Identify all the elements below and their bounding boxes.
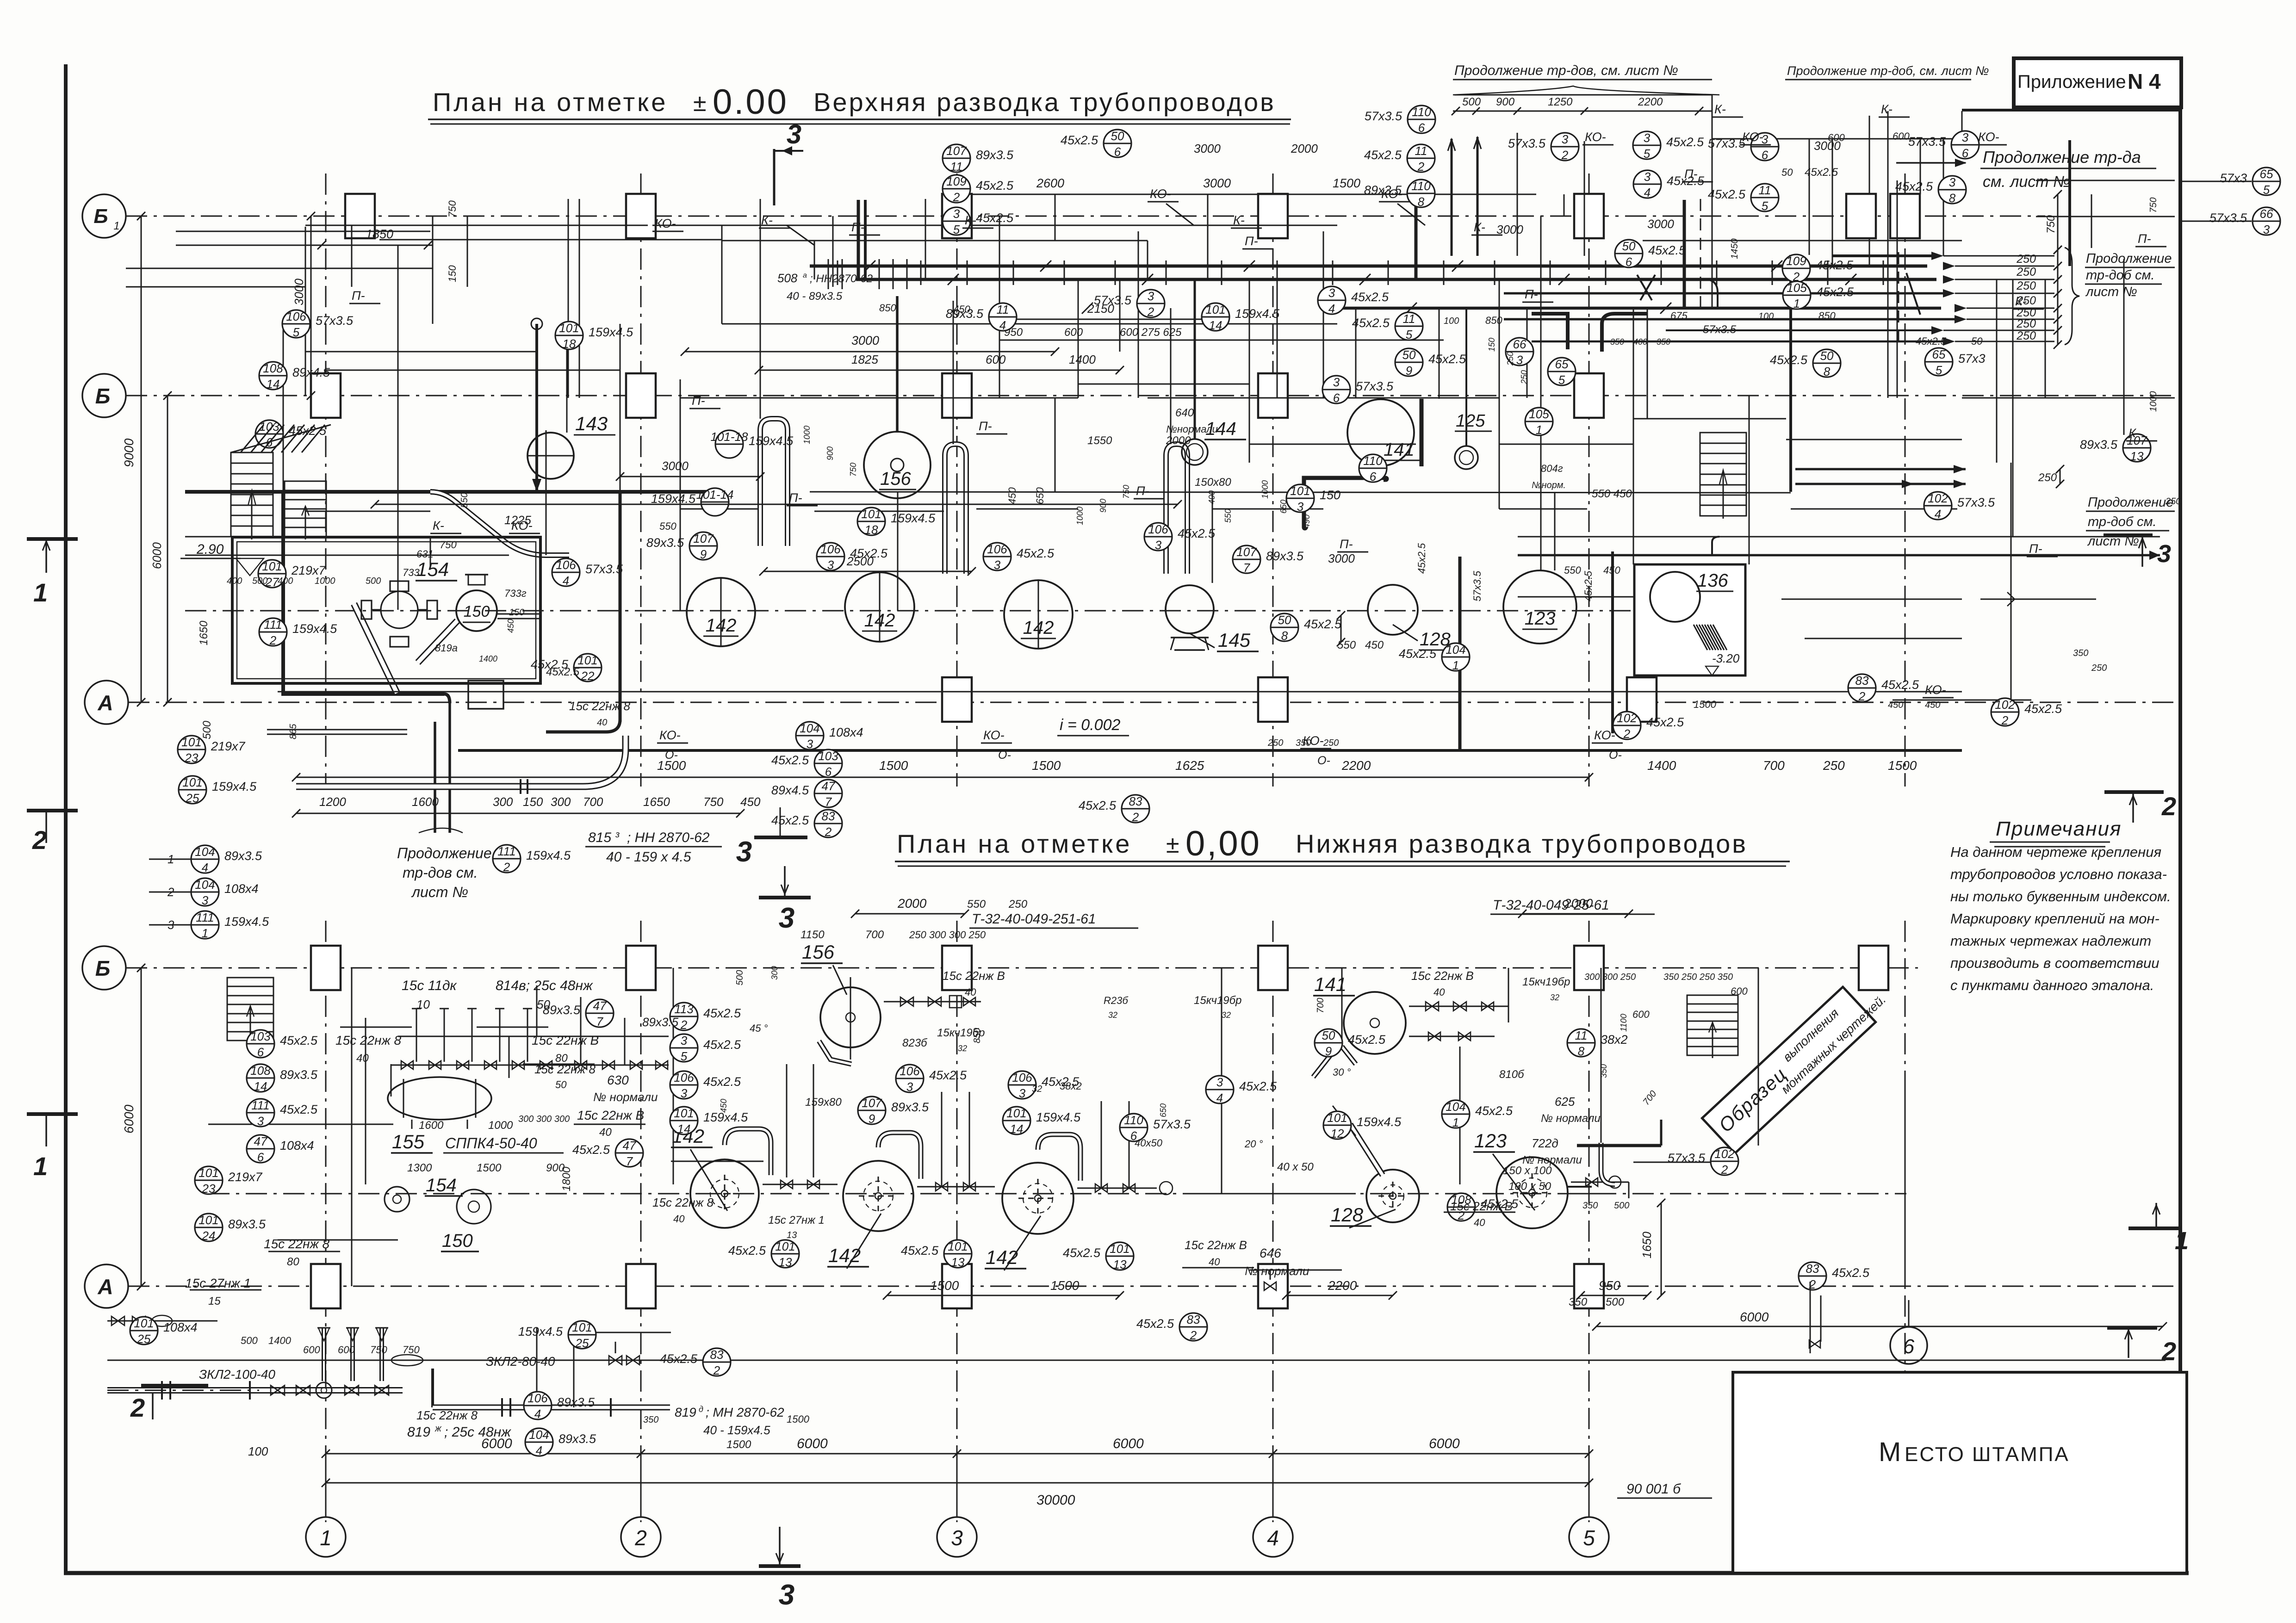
bundle zigzag 2 (1690, 279, 1718, 308)
right verticals a (1887, 111, 1889, 398)
svg-text:6: 6 (825, 765, 832, 779)
141 heavy header (1305, 479, 1386, 527)
svg-text:300: 300 (770, 966, 779, 980)
svg-text:КО-: КО- (1585, 130, 1606, 144)
pipe line left y760 (305, 351, 537, 353)
svg-text:123: 123 (1525, 608, 1556, 629)
svg-text:КО-: КО- (655, 217, 676, 230)
svg-text:14: 14 (254, 1079, 267, 1093)
svg-text:57х3: 57х3 (2220, 171, 2247, 185)
svg-text:4: 4 (1644, 186, 1651, 199)
texture pipe v20 (1055, 398, 1056, 492)
svg-text:700: 700 (865, 929, 884, 941)
svg-text:45х2.5: 45х2.5 (703, 1075, 741, 1089)
callout 104/4 lower (525, 1428, 553, 1456)
callout 3/8 upper (1938, 176, 1966, 204)
svg-text:±: ± (693, 90, 707, 117)
svg-text:350: 350 (1599, 1064, 1608, 1078)
pipe line u11 (1078, 384, 1249, 385)
pipe riser x3060 (1415, 200, 1418, 279)
callout 47/7 upper (814, 780, 842, 807)
slash mark 8 (1660, 303, 1671, 314)
svg-text:159х4.5: 159х4.5 (518, 1325, 563, 1338)
svg-text:110: 110 (1412, 105, 1431, 119)
riser line 17 (1207, 216, 1209, 279)
svg-text:i = 0.002: i = 0.002 (1060, 716, 1120, 734)
svg-text:90 001 б: 90 001 б (1626, 1481, 1681, 1497)
pipe line u16 (1212, 508, 1323, 510)
svg-text:159х4.5: 159х4.5 (292, 622, 337, 636)
156 heavy riser (896, 296, 899, 433)
riser line 23 (1633, 308, 1634, 564)
svg-text:650: 650 (1159, 1103, 1168, 1117)
right pipe y1200 (1518, 554, 2160, 557)
svg-text:32: 32 (1108, 1010, 1117, 1020)
svg-text:1500: 1500 (1333, 176, 1360, 190)
equipment centerline lower (208, 1193, 1906, 1195)
svg-text:см. лист №: см. лист № (1983, 173, 2070, 191)
lower riser 19 (1758, 968, 1759, 1146)
texture pipe h10 (1962, 397, 2175, 399)
svg-text:500: 500 (252, 576, 267, 586)
texture pipe v23 (1554, 492, 1556, 570)
gate tick 4 (1013, 260, 1014, 285)
heavy vert x3485 (1611, 551, 1614, 733)
callout 110/6 upper (1408, 105, 1435, 133)
callout 107/13 upper (2123, 434, 2151, 462)
svg-text:250: 250 (1823, 758, 1845, 773)
room wall upper (232, 537, 540, 683)
riser line 3 (432, 216, 434, 324)
svg-text:350: 350 (643, 1415, 658, 1425)
texture pipe v7 (1809, 139, 1810, 255)
svg-text:Продолжение тр-доб, см. лис: Продолжение тр-доб, см. лист № (1787, 64, 1989, 78)
svg-text:К-: К- (965, 213, 976, 227)
svg-text:125: 125 (1456, 411, 1485, 431)
pipe line u22 (1518, 596, 1633, 598)
svg-text:9: 9 (1406, 364, 1412, 378)
svg-text:4: 4 (534, 1407, 541, 1421)
svg-text:57х3: 57х3 (1958, 352, 1986, 365)
sheet right border (2178, 107, 2182, 1573)
svg-text:Маркировку креплений на мон: Маркировку креплений на мон- (1950, 911, 2159, 927)
svg-text:108х4: 108х4 (163, 1320, 198, 1334)
riser line 15 (1138, 231, 1139, 398)
texture pipe h3 (722, 240, 1148, 242)
svg-text:1650: 1650 (643, 795, 670, 809)
svg-text:57х3.5: 57х3.5 (1708, 136, 1746, 150)
svg-text:13: 13 (787, 1230, 797, 1240)
svg-text:45х2.5: 45х2.5 (929, 1068, 967, 1082)
svg-text:106: 106 (527, 1391, 548, 1405)
texture pipe h12 (176, 245, 324, 246)
callout 47/7 lower (615, 1139, 643, 1167)
svg-text:900: 900 (1496, 96, 1515, 108)
svg-text:3000: 3000 (1328, 551, 1355, 565)
column line 2 lower (640, 921, 642, 1522)
pipe hook 156 (819, 1041, 851, 1064)
bundle dim line (2057, 250, 2059, 345)
pipe line u1 (652, 225, 1337, 226)
pipe line u3 (324, 245, 433, 246)
callout 11/5 upper (1751, 184, 1779, 211)
svg-text:142: 142 (1023, 618, 1054, 638)
callout 65/5 upper (1925, 348, 1953, 376)
svg-text:5: 5 (953, 223, 960, 236)
svg-text:50: 50 (1971, 335, 1983, 347)
callout 103/6 lower (247, 1030, 274, 1058)
svg-text:640: 640 (1175, 407, 1194, 419)
svg-text:6: 6 (1626, 255, 1632, 269)
gate tick 3 (967, 260, 968, 285)
pipe 144 drop (1194, 279, 1196, 439)
svg-text:650: 650 (1034, 487, 1046, 504)
pipe line u18 (1791, 508, 1957, 510)
svg-text:О-: О- (1317, 754, 1330, 767)
callout 110/8 upper (1407, 180, 1435, 207)
pipe 150 right (497, 613, 540, 619)
callout 104/1 upper (1442, 643, 1470, 671)
label underline (1182, 1267, 1254, 1269)
svg-text:675: 675 (1670, 310, 1688, 322)
svg-text:550: 550 (1564, 564, 1581, 576)
svg-text:0.00: 0.00 (713, 82, 788, 122)
heavy vert x3193 (1477, 137, 1479, 256)
svg-text:450: 450 (1006, 487, 1018, 504)
equipment 128 upper (1368, 585, 1418, 635)
svg-text:45х2.5: 45х2.5 (1017, 546, 1055, 560)
svg-text:КО-: КО- (1978, 130, 1999, 144)
svg-text:101: 101 (674, 1106, 694, 1120)
section flag 3 mid-upper (780, 807, 781, 837)
heavy vert x1340 (619, 492, 622, 722)
gate tick 20 (1883, 260, 1884, 285)
svg-text:М: М (1879, 1437, 1902, 1467)
lower riser 14 (1221, 968, 1222, 1194)
callout 83/2 upper (814, 810, 842, 837)
svg-text:100: 100 (1444, 316, 1459, 326)
svg-text:89х3.5: 89х3.5 (891, 1100, 929, 1114)
svg-text:План на отметке: План на отметке (433, 87, 668, 117)
svg-text:45х2.5: 45х2.5 (660, 1352, 698, 1366)
svg-text:32: 32 (958, 1044, 967, 1053)
svg-text:2: 2 (825, 825, 832, 839)
svg-text:а: а (803, 272, 807, 279)
svg-text:40 - 159х4.5: 40 - 159х4.5 (703, 1423, 770, 1437)
svg-text:350: 350 (1582, 1201, 1598, 1211)
callout 101/14 upper (1202, 303, 1229, 331)
lower title underline (895, 861, 1790, 862)
svg-text:3: 3 (1019, 1086, 1026, 1100)
thin line y518 (379, 239, 722, 241)
dim 2200 lower (1286, 1295, 1393, 1296)
svg-text:350: 350 (1657, 337, 1670, 347)
lower riser 21 (1820, 1295, 1822, 1342)
svg-text:О-: О- (998, 749, 1011, 762)
column rect А lower (1574, 1264, 1604, 1308)
platform rect (468, 681, 503, 709)
svg-text:550: 550 (1223, 509, 1233, 523)
svg-text:66: 66 (1513, 337, 1527, 351)
texture pipe h1 (999, 340, 1444, 341)
bottom dim chain 6000s (326, 1453, 1589, 1455)
svg-text:6000: 6000 (1429, 1436, 1460, 1451)
callout 106/3 upper (817, 543, 844, 570)
svg-text:100 х 50: 100 х 50 (1508, 1180, 1551, 1193)
riser line 29 (2012, 279, 2014, 537)
section mark 2 right lower (2107, 1326, 2157, 1330)
svg-text:300 300 250: 300 300 250 (1584, 972, 1636, 982)
callout 104/1 lower (1442, 1100, 1470, 1128)
svg-text:9: 9 (700, 547, 707, 561)
svg-text:108х4: 108х4 (829, 725, 863, 739)
svg-text:45х2.5: 45х2.5 (1136, 1317, 1174, 1331)
lower riser 1 (365, 1018, 366, 1184)
pipe 125 drop (1465, 308, 1467, 446)
callout 66/3 upper (2253, 207, 2280, 235)
svg-text:500: 500 (1462, 96, 1481, 108)
callout 101-14/ upper (701, 488, 729, 516)
svg-text:40: 40 (1433, 986, 1445, 998)
KO heavy bend right (1712, 537, 1719, 555)
column line 1 lower (325, 921, 327, 1522)
svg-text:45х2.5: 45х2.5 (1352, 316, 1390, 330)
svg-text:550: 550 (459, 493, 470, 508)
callout 106/3 upper (1144, 523, 1172, 551)
svg-text:П-: П- (851, 220, 865, 234)
diag pipe 154 b (418, 621, 457, 663)
callout 3/5 upper (943, 207, 970, 235)
dim 1825-600-1400 (759, 370, 1120, 371)
svg-text:750: 750 (403, 1344, 420, 1356)
label underline (340, 1027, 412, 1028)
callout 102/2 upper (1613, 712, 1641, 739)
texture pipe h5 (1712, 138, 1962, 140)
svg-text:; МН 2870-62: ; МН 2870-62 (706, 1405, 784, 1419)
svg-text:6000: 6000 (150, 542, 164, 569)
svg-text:110: 110 (1363, 454, 1383, 468)
svg-text:45х2.5: 45х2.5 (1646, 715, 1684, 729)
pipe riser x3870 (1789, 255, 1792, 492)
svg-text:45х2.5: 45х2.5 (1475, 1104, 1513, 1118)
pipe line u12 (185, 536, 527, 538)
svg-text:трубопроводов условно показа: трубопроводов условно показа- (1950, 866, 2167, 882)
svg-text:КО-: КО- (1150, 187, 1171, 201)
gate tick 9 (1277, 260, 1278, 285)
svg-text:500: 500 (1614, 1201, 1629, 1211)
texture pipe v22 (1212, 492, 1213, 583)
callout 102/4 upper (1924, 492, 1952, 520)
sheet left border (64, 64, 68, 1573)
equipment 142b upper (845, 572, 914, 642)
svg-text:57х3.5: 57х3.5 (2209, 211, 2247, 225)
svg-text:100: 100 (248, 1444, 268, 1458)
svg-text:15с 22нж 8: 15с 22нж 8 (652, 1196, 714, 1209)
callout 66/3 upper (1506, 338, 1533, 365)
svg-text:250: 250 (1267, 738, 1283, 748)
column rect Б1 (1890, 194, 1920, 238)
svg-text:30 °: 30 ° (1333, 1066, 1351, 1078)
svg-text:850: 850 (879, 302, 896, 314)
svg-text:На данном чертеже крепления: На данном чертеже крепления (1950, 844, 2161, 860)
svg-text:R23б: R23б (1104, 995, 1129, 1006)
heavy vert x3155 (1458, 557, 1462, 750)
callout 47/6 lower (247, 1135, 274, 1163)
callout 108/14 lower (247, 1064, 274, 1092)
svg-text:47: 47 (254, 1134, 268, 1148)
svg-text:101: 101 (181, 735, 201, 749)
svg-text:8: 8 (1824, 365, 1831, 378)
svg-text:тр-доб см.: тр-доб см. (2086, 268, 2155, 283)
svg-text:2: 2 (269, 633, 277, 647)
lower pipe 0 (107, 1360, 2166, 1361)
svg-text:5: 5 (2263, 183, 2270, 197)
svg-text:107: 107 (946, 144, 967, 158)
svg-text:550: 550 (967, 898, 986, 911)
svg-text:38х2: 38х2 (1601, 1033, 1628, 1047)
callout 105/1 upper (1783, 281, 1811, 309)
svg-text:2: 2 (1561, 148, 1569, 162)
stairs lower right (1687, 995, 1738, 1055)
pipe bundle right 3 (1504, 318, 1962, 321)
texture pipe h15 (305, 511, 430, 512)
axis Б1 line (126, 216, 2045, 217)
svg-text:142: 142 (706, 615, 737, 636)
svg-text:159х4.5: 159х4.5 (891, 511, 936, 525)
gate tick 11 (1388, 260, 1389, 285)
svg-text:32: 32 (1222, 1010, 1231, 1020)
svg-text:1550: 1550 (1087, 434, 1112, 447)
equipment 145 (1166, 585, 1214, 633)
svg-text:5: 5 (681, 1049, 688, 1063)
dim 2000 lower right (1522, 913, 1629, 915)
svg-text:100: 100 (1758, 311, 1774, 322)
riser line 14 (1078, 279, 1079, 398)
svg-text:106: 106 (556, 558, 576, 572)
manifold riser 4 (527, 1009, 528, 1062)
svg-text:850: 850 (1485, 315, 1502, 326)
svg-text:30000: 30000 (1036, 1493, 1075, 1508)
callout 101/24 lower (195, 1214, 223, 1241)
svg-text:65: 65 (2260, 167, 2273, 181)
callout 110/6 lower (1120, 1114, 1148, 1141)
svg-text:156: 156 (880, 469, 911, 489)
svg-text:733: 733 (403, 567, 420, 578)
svg-text:101-14: 101-14 (696, 488, 734, 502)
pipe line u15 (976, 508, 1078, 510)
svg-text:219х7: 219х7 (291, 564, 326, 577)
svg-text:89х3.5: 89х3.5 (557, 1395, 595, 1409)
callout 83/2 upper (1122, 795, 1149, 823)
svg-text:1625: 1625 (1175, 758, 1204, 773)
svg-text:6000: 6000 (1113, 1436, 1144, 1451)
svg-text:3: 3 (953, 207, 960, 221)
callout 101/25 lower (568, 1321, 596, 1349)
assembly riser 1 (350, 1328, 355, 1381)
svg-text:14: 14 (1010, 1122, 1024, 1136)
svg-text:3: 3 (681, 1034, 688, 1047)
svg-text:П-: П- (1245, 234, 1258, 248)
svg-text:128: 128 (1331, 1204, 1364, 1226)
lower pipe 3 (107, 1320, 217, 1322)
pipe bundle right 4 (1666, 329, 1939, 331)
svg-text:722д: 722д (1532, 1136, 1558, 1150)
svg-text:900: 900 (1098, 499, 1108, 513)
svg-text:1: 1 (202, 926, 208, 940)
svg-text:4: 4 (1267, 1526, 1279, 1550)
cont arrow line (1896, 162, 1966, 164)
svg-text:89х3.5: 89х3.5 (642, 1015, 679, 1029)
svg-text:; НН2870-62: ; НН2870-62 (810, 273, 873, 285)
svg-text:6: 6 (1370, 470, 1377, 483)
lower riser 6 (624, 1018, 626, 1065)
lower riser 12 (1101, 1101, 1102, 1188)
svg-text:750: 750 (2045, 215, 2057, 234)
svg-text:3: 3 (1516, 353, 1523, 367)
callout 3/2 upper (1551, 133, 1579, 161)
svg-text:40 - 89х3.5: 40 - 89х3.5 (787, 290, 843, 303)
KO long leaders (787, 225, 814, 245)
svg-text:823б: 823б (902, 1037, 928, 1049)
equipment 128 lower (1366, 1170, 1419, 1222)
svg-text:2: 2 (1858, 689, 1866, 703)
curved pipe at 143 (430, 492, 569, 555)
svg-text:13: 13 (779, 1255, 792, 1269)
svg-text:2: 2 (1721, 1163, 1728, 1177)
svg-text:45х2.5: 45х2.5 (546, 666, 580, 678)
svg-text:450: 450 (506, 619, 515, 633)
svg-text:7: 7 (626, 1154, 633, 1168)
equipment 142b lower (843, 1161, 913, 1231)
equipment 154 lower (385, 1187, 410, 1212)
svg-text:15: 15 (208, 1295, 221, 1307)
svg-text:5: 5 (1406, 328, 1413, 341)
label underline (1444, 1212, 1515, 1213)
riser line 31 (2091, 194, 2092, 248)
svg-text:11: 11 (1403, 312, 1415, 326)
svg-text:850: 850 (1818, 310, 1836, 322)
thin vert x3279 (1517, 133, 1518, 256)
callout 11/2 upper (1407, 144, 1435, 172)
svg-text:40: 40 (356, 1052, 369, 1065)
gate tick 0 (837, 260, 838, 285)
svg-text:КО-: КО- (1925, 683, 1946, 697)
svg-text:45х2.5: 45х2.5 (703, 1038, 741, 1052)
equipment centerline upper (185, 610, 1721, 612)
bundle zigzag 1 (1637, 275, 1652, 300)
svg-text:15с 22нж В: 15с 22нж В (1411, 969, 1474, 983)
riser line 9 (760, 199, 761, 419)
svg-text:350 250 250 350: 350 250 250 350 (1663, 972, 1733, 982)
svg-text:101: 101 (262, 559, 282, 573)
lower riser 15 (1341, 968, 1343, 1046)
svg-text:15с 27нж 1: 15с 27нж 1 (185, 1276, 251, 1290)
upper elbow pipe 143 (760, 419, 788, 546)
cont heavy line a (1795, 468, 1966, 471)
svg-text:22: 22 (581, 669, 595, 683)
svg-text:45х2.5: 45х2.5 (1666, 135, 1704, 149)
142c inlet elbow (1038, 1134, 1080, 1181)
main pipe run C (1337, 307, 1941, 310)
svg-text:3: 3 (1155, 538, 1162, 552)
pipe up from assembly (536, 1328, 538, 1407)
gate tick 1 (879, 260, 880, 285)
svg-text:45х2.5: 45х2.5 (1895, 180, 1933, 193)
gate tick 6 (1115, 260, 1116, 285)
svg-text:1: 1 (1452, 658, 1459, 672)
long vert x4346 (2011, 463, 2012, 722)
callout 50/9 lower (1315, 1029, 1342, 1057)
